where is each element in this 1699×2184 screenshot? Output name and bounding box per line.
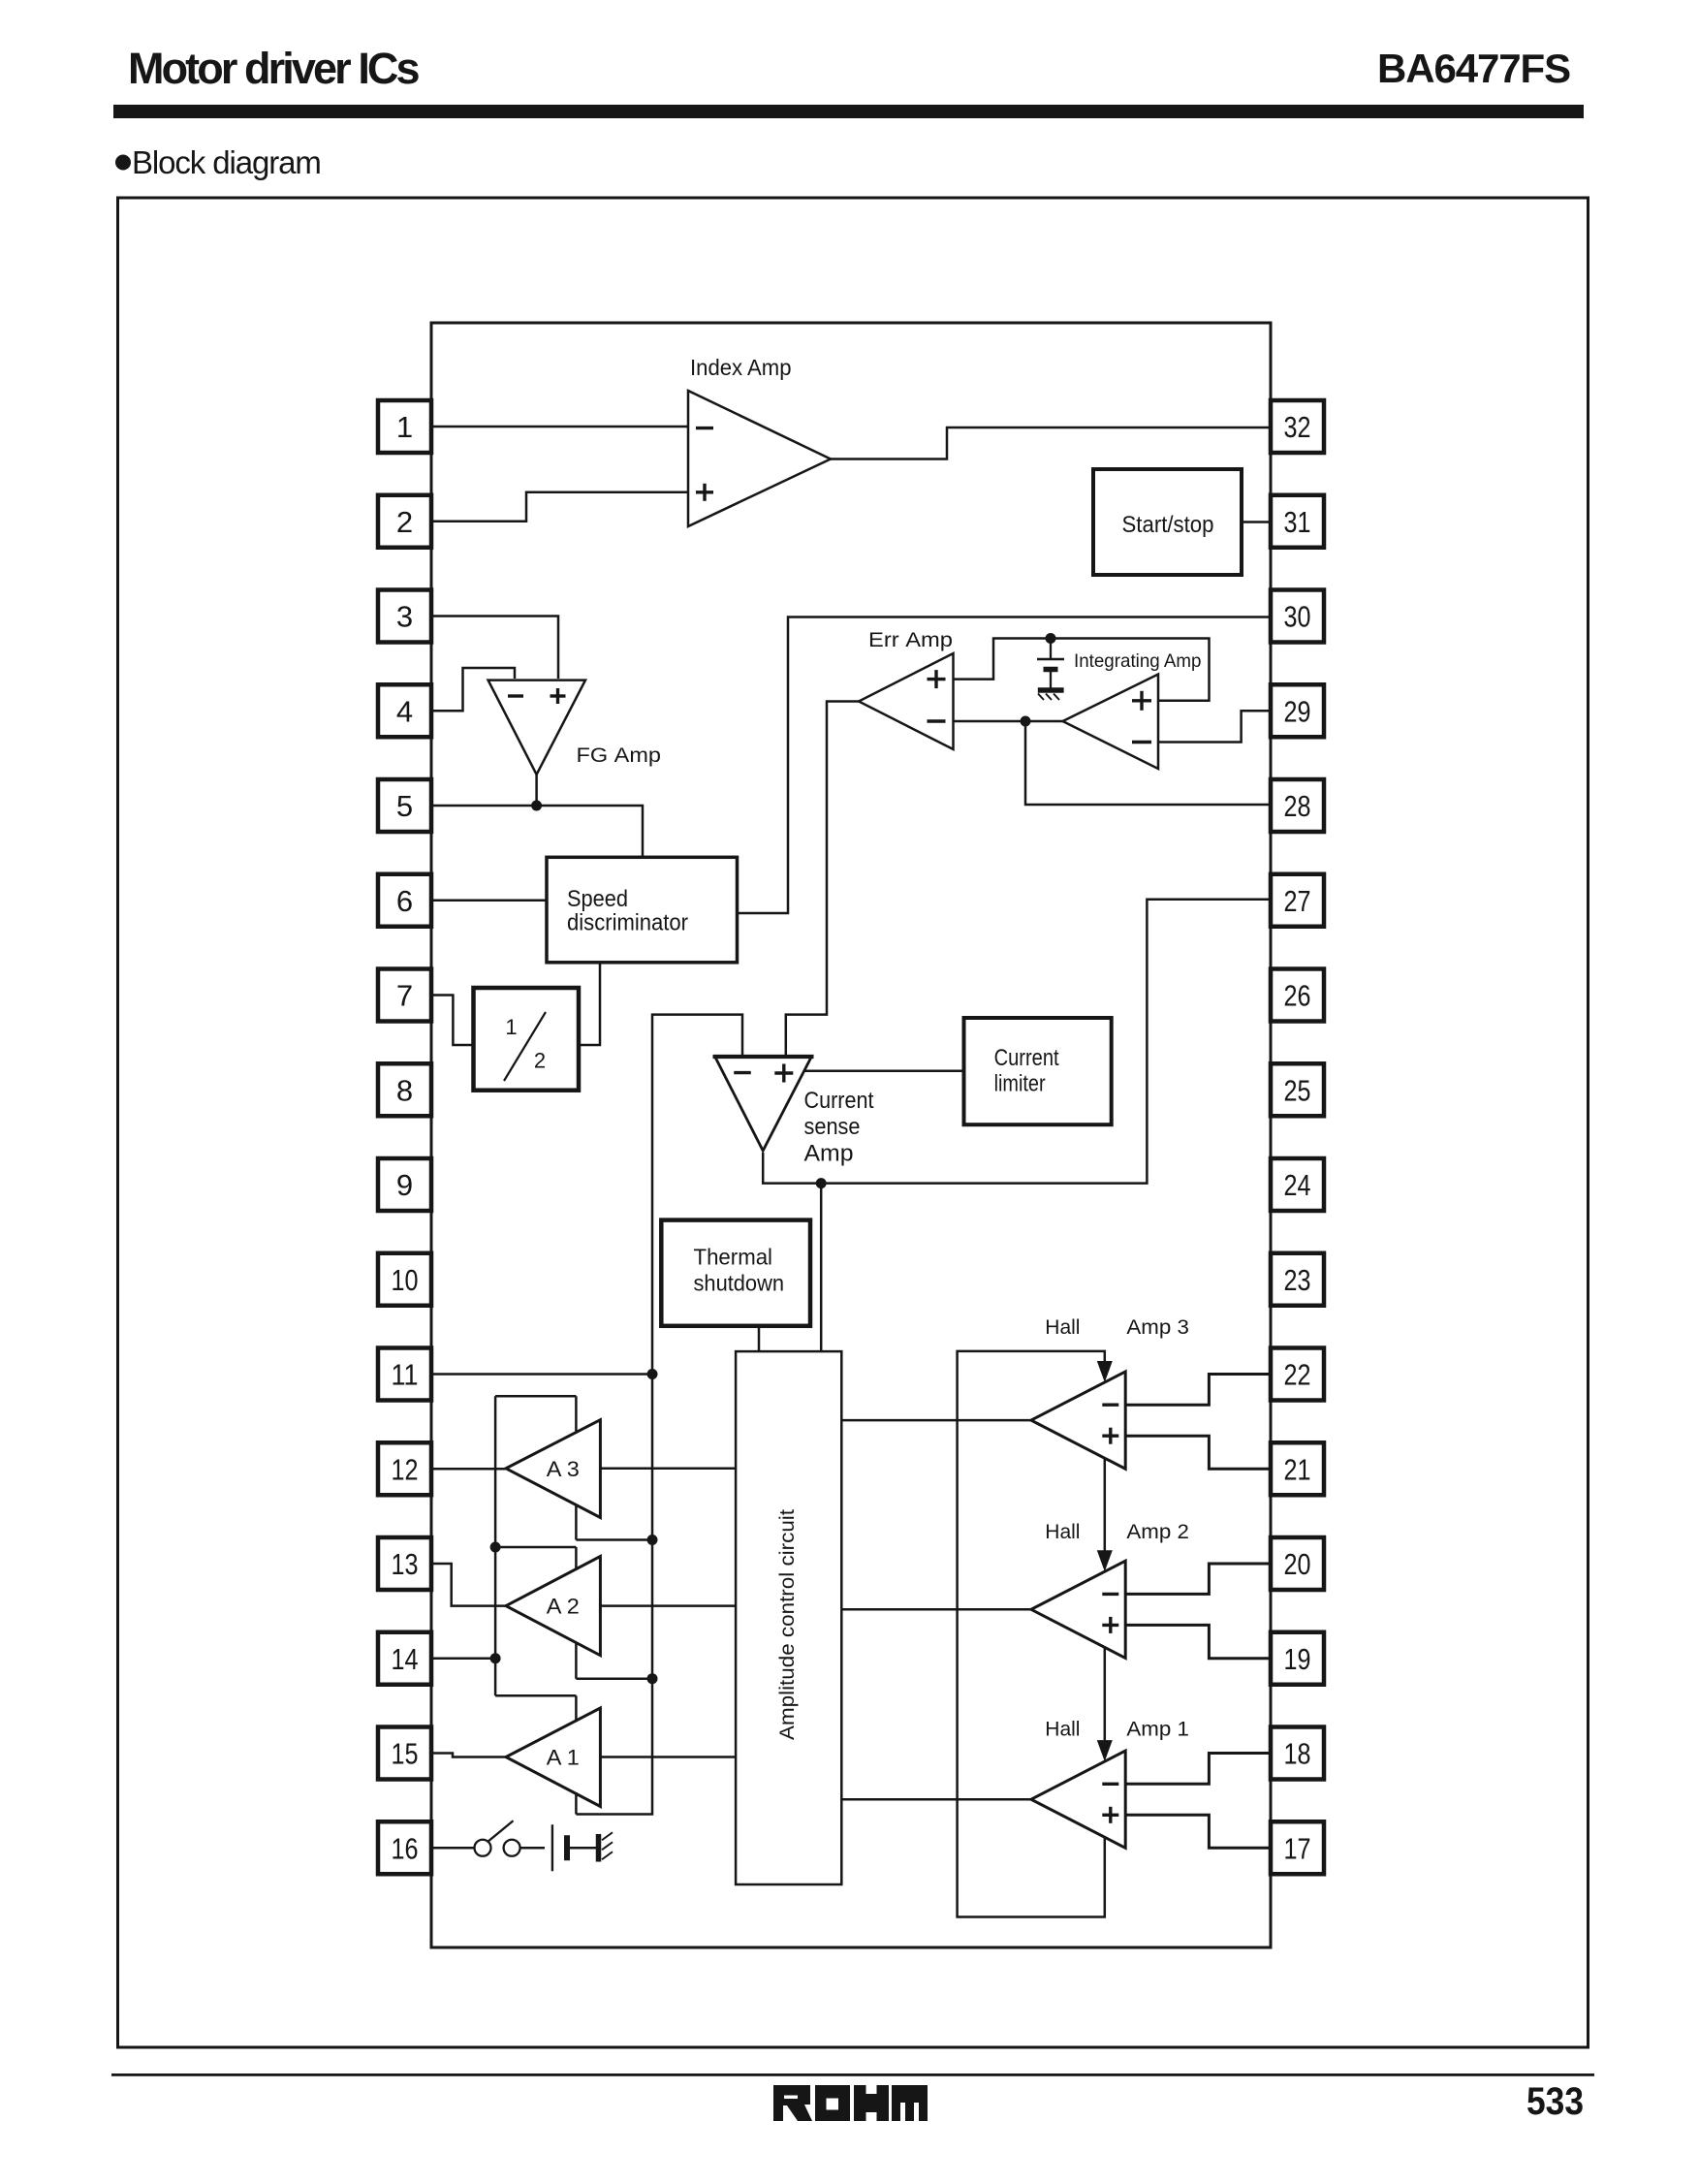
capacitor at integrating node xyxy=(1037,639,1064,688)
wire pin11 to trunk xyxy=(431,1373,652,1376)
pin 20 xyxy=(1271,1537,1324,1590)
svg-text:Amp 1: Amp 1 xyxy=(1126,1718,1189,1740)
svg-text:22: 22 xyxy=(1284,1358,1311,1392)
pin 1 xyxy=(378,400,431,453)
svg-text:16: 16 xyxy=(392,1831,419,1865)
wire A-amp bias chain vertical xyxy=(494,1396,497,1695)
svg-text:Start/stop: Start/stop xyxy=(1122,512,1214,538)
wire pin to Hall Amp 2 - input xyxy=(1125,1564,1271,1594)
arrow into Hall Amp 1 xyxy=(1097,1740,1113,1761)
arrow into Hall Amp 3 xyxy=(1097,1361,1113,1382)
pin 9 xyxy=(378,1158,431,1211)
wire pin4 to FG Amp inverting input xyxy=(431,668,515,711)
pin 19 xyxy=(1271,1632,1324,1685)
svg-text:Motor driver ICs: Motor driver ICs xyxy=(128,44,420,93)
op-amp Current sense Amp xyxy=(713,1057,814,1151)
svg-text:shutdown: shutdown xyxy=(694,1271,785,1296)
IC boundary box xyxy=(431,323,1271,1947)
wire pin5 to Speed discriminator xyxy=(431,806,643,857)
svg-text:7: 7 xyxy=(396,979,413,1013)
ground chassis xyxy=(599,1832,614,1861)
svg-text:4: 4 xyxy=(396,694,413,728)
pin 23 xyxy=(1271,1253,1324,1306)
wire pin1 to Index Amp inverting input xyxy=(431,426,688,428)
junction chain A2 tap xyxy=(490,1542,501,1553)
svg-text:A 3: A 3 xyxy=(547,1457,580,1481)
junction FG output / pin5 xyxy=(531,801,542,811)
svg-text:Current: Current xyxy=(804,1088,874,1114)
wire pin15 to A1 input xyxy=(431,1754,506,1757)
wire 1/2 divider to Speed discriminator bottom xyxy=(579,963,600,1045)
wire pin12 to A3 input xyxy=(431,1468,506,1471)
svg-text:19: 19 xyxy=(1284,1642,1311,1676)
wire pin to Hall Amp 1 - input xyxy=(1125,1754,1271,1785)
svg-text:28: 28 xyxy=(1284,789,1311,823)
svg-text:20: 20 xyxy=(1284,1547,1311,1581)
wire A1 output to Amplitude control circuit xyxy=(600,1756,736,1758)
wire hall chain segment 3-2 xyxy=(1104,1458,1107,1567)
pin 30 xyxy=(1271,590,1324,643)
svg-text:21: 21 xyxy=(1284,1452,1311,1486)
op-amp A2 xyxy=(506,1557,600,1656)
pin 18 xyxy=(1271,1727,1324,1780)
svg-text:31: 31 xyxy=(1284,505,1311,539)
svg-text:17: 17 xyxy=(1284,1831,1311,1865)
op-amp Integrating Amp xyxy=(1063,675,1159,770)
svg-text:533: 533 xyxy=(1526,2080,1584,2123)
svg-text:9: 9 xyxy=(396,1168,413,1202)
wire pin6 to Speed discriminator xyxy=(431,900,547,902)
wire Current sense Amp to Current limiter xyxy=(804,1070,964,1073)
pin 6 xyxy=(378,874,431,927)
svg-text:FG Amp: FG Amp xyxy=(577,744,662,767)
wire node to pin 28 xyxy=(1025,721,1271,805)
wire A2 output to Amplitude control circuit xyxy=(600,1604,736,1607)
junction current sense output branch xyxy=(816,1178,827,1188)
block Thermal shutdown xyxy=(661,1220,810,1326)
wire pin to Hall Amp 2 + input xyxy=(1125,1625,1271,1658)
ROHM logo xyxy=(773,2085,928,2121)
svg-text:Thermal: Thermal xyxy=(694,1245,773,1270)
op-amp Index Amp xyxy=(688,391,831,526)
svg-text:2: 2 xyxy=(534,1049,546,1073)
switch SW xyxy=(475,1820,520,1856)
svg-text:Hall: Hall xyxy=(1045,1316,1080,1339)
svg-text:Amp 2: Amp 2 xyxy=(1126,1521,1189,1543)
svg-text:10: 10 xyxy=(392,1263,419,1297)
pin 14 xyxy=(378,1632,431,1685)
ground below capacitor xyxy=(1038,690,1064,700)
label Current sense Amp xyxy=(804,1088,874,1167)
wire pin to Hall Amp 3 + input xyxy=(1125,1436,1271,1469)
svg-text:24: 24 xyxy=(1284,1168,1311,1202)
svg-text:32: 32 xyxy=(1284,410,1311,444)
pin 22 xyxy=(1271,1348,1324,1401)
outer border frame xyxy=(118,198,1589,2047)
junction pin14 chain xyxy=(490,1653,501,1663)
wire hall chain segment 2-1 xyxy=(1104,1647,1107,1757)
wire Start/stop to pin 31 xyxy=(1242,521,1271,523)
pin 7 xyxy=(378,969,431,1022)
pin 25 xyxy=(1271,1063,1324,1116)
svg-text:27: 27 xyxy=(1284,884,1311,918)
battery cell xyxy=(552,1824,567,1871)
wire pin3 to FG Amp non-inverting input xyxy=(431,617,558,680)
svg-text:Hall: Hall xyxy=(1045,1521,1080,1543)
footer rule xyxy=(111,2073,1594,2076)
svg-text:Amplitude control circuit: Amplitude control circuit xyxy=(776,1509,799,1740)
wire FG Amp output to pin5 node xyxy=(535,775,538,806)
wire Err Amp + input to Integrating Amp + input xyxy=(954,639,1210,701)
block Start/stop xyxy=(1093,469,1242,575)
pin 28 xyxy=(1271,779,1324,832)
svg-text:Err Amp: Err Amp xyxy=(868,629,953,651)
svg-text:Hall: Hall xyxy=(1045,1718,1080,1740)
pin 21 xyxy=(1271,1442,1324,1495)
pin 26 xyxy=(1271,969,1324,1022)
junction trunk A3 xyxy=(647,1535,658,1545)
arrow into Hall Amp 2 xyxy=(1097,1550,1113,1571)
svg-text:25: 25 xyxy=(1284,1073,1311,1107)
block Current limiter xyxy=(964,1018,1112,1124)
header rule xyxy=(113,105,1584,118)
wire switch to battery xyxy=(520,1847,545,1850)
pin 10 xyxy=(378,1253,431,1306)
pin 31 xyxy=(1271,495,1324,548)
svg-text:1: 1 xyxy=(396,410,413,444)
svg-text:Amp 3: Amp 3 xyxy=(1126,1316,1189,1339)
wire branch to Amplitude control circuit top xyxy=(820,1184,823,1352)
wire A1 bypass loop xyxy=(495,1695,576,1814)
svg-text:Speed: Speed xyxy=(567,886,628,912)
wire pin16 to switch xyxy=(431,1847,474,1850)
op-amp A1 xyxy=(506,1708,600,1807)
pin 15 xyxy=(378,1727,431,1780)
pin 32 xyxy=(1271,400,1324,453)
svg-text:26: 26 xyxy=(1284,979,1311,1013)
wire pin2 to Index Amp non-inverting input xyxy=(431,492,688,522)
wire A3 output to Amplitude control circuit xyxy=(600,1468,736,1471)
op-amp Hall Amp 1 xyxy=(1031,1751,1125,1848)
wire Integrating Amp - input to pin 29 xyxy=(1158,711,1271,742)
svg-text:Integrating Amp: Integrating Amp xyxy=(1074,650,1202,672)
svg-text:Amp: Amp xyxy=(804,1141,854,1167)
wire pin7 to 1/2 divider xyxy=(431,996,474,1046)
svg-text:BA6477FS: BA6477FS xyxy=(1377,46,1570,91)
wire Speed discriminator output to pin 30 xyxy=(738,617,1272,914)
pin 8 xyxy=(378,1063,431,1116)
svg-text:limiter: limiter xyxy=(994,1071,1046,1097)
svg-text:23: 23 xyxy=(1284,1263,1311,1297)
junction capacitor node xyxy=(1046,633,1056,644)
wire ACC to Hall Amp 1 output xyxy=(841,1798,1031,1801)
wire pin14 to bias chain xyxy=(431,1658,495,1661)
svg-text:6: 6 xyxy=(396,884,413,918)
op-amp Err Amp xyxy=(859,653,954,749)
pin 27 xyxy=(1271,874,1324,927)
pin 13 xyxy=(378,1537,431,1590)
svg-text:5: 5 xyxy=(396,789,413,823)
wire A3 bypass loop xyxy=(495,1396,652,1539)
wire ACC to Hall Amp 2 output xyxy=(841,1608,1031,1611)
wire battery to ground xyxy=(570,1847,597,1850)
op-amp A3 xyxy=(506,1420,600,1518)
wire A2 bypass loop xyxy=(495,1547,652,1679)
svg-text:3: 3 xyxy=(396,600,413,634)
svg-text:13: 13 xyxy=(392,1547,419,1581)
wire Current sense Amp output to pin 27 xyxy=(763,900,1271,1184)
wire hall bias loop xyxy=(958,1351,1105,1917)
pin 2 xyxy=(378,495,431,548)
op-amp Hall Amp 3 xyxy=(1031,1372,1125,1469)
pin 12 xyxy=(378,1442,431,1495)
svg-text:Block diagram: Block diagram xyxy=(132,144,321,180)
wire pin13 to A2 input xyxy=(431,1564,506,1606)
svg-text:8: 8 xyxy=(396,1073,413,1107)
svg-text:A 1: A 1 xyxy=(547,1746,580,1770)
wire Err Amp output down to Current sense Amp + input xyxy=(786,702,859,1057)
svg-text:2: 2 xyxy=(396,505,413,539)
svg-text:14: 14 xyxy=(392,1642,419,1676)
section label: Block diagram xyxy=(115,155,131,171)
pin 11 xyxy=(378,1348,431,1401)
svg-text:A 2: A 2 xyxy=(547,1595,580,1619)
svg-text:Current: Current xyxy=(994,1045,1059,1071)
op-amp FG Amp xyxy=(488,681,585,775)
junction integrator output node xyxy=(1021,716,1031,727)
op-amp Hall Amp 2 xyxy=(1031,1561,1125,1658)
wire ACC to Hall Amp 3 output xyxy=(841,1419,1031,1422)
block 1/2 divider xyxy=(474,988,580,1091)
wire Current sense Amp - input to control trunk xyxy=(576,1015,742,1815)
junction trunk A2 xyxy=(647,1673,658,1684)
svg-text:Index Amp: Index Amp xyxy=(690,355,792,380)
pin 4 xyxy=(378,684,431,737)
svg-text:29: 29 xyxy=(1284,694,1311,728)
svg-text:sense: sense xyxy=(804,1114,861,1140)
pin 3 xyxy=(378,590,431,643)
svg-text:11: 11 xyxy=(392,1358,419,1392)
pin 5 xyxy=(378,779,431,832)
pin 24 xyxy=(1271,1158,1324,1211)
block Amplitude control circuit xyxy=(736,1351,841,1884)
pin 17 xyxy=(1271,1821,1324,1874)
wire pin to Hall Amp 1 + input xyxy=(1125,1815,1271,1848)
wire Thermal shutdown to Amplitude control circuit xyxy=(758,1326,761,1351)
svg-text:15: 15 xyxy=(392,1737,419,1771)
svg-text:1: 1 xyxy=(505,1015,517,1039)
svg-text:discriminator: discriminator xyxy=(567,910,688,936)
wire Index Amp output to pin 32 xyxy=(831,427,1271,459)
svg-text:18: 18 xyxy=(1284,1737,1311,1771)
pin 29 xyxy=(1271,684,1324,737)
svg-text:30: 30 xyxy=(1284,600,1311,634)
svg-text:12: 12 xyxy=(392,1452,419,1486)
wire pin to Hall Amp 3 - input xyxy=(1125,1375,1271,1406)
pin 16 xyxy=(378,1821,431,1874)
wire Err Amp - input to Integrating Amp output xyxy=(954,720,1063,723)
junction trunk pin11 xyxy=(647,1369,658,1379)
block Speed discriminator xyxy=(547,857,738,963)
